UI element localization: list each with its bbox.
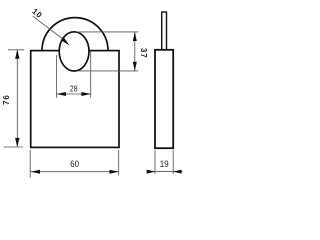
svg-text:60: 60: [70, 159, 79, 170]
svg-text:37: 37: [139, 48, 148, 59]
svg-text:19: 19: [160, 159, 169, 170]
svg-text:28: 28: [70, 84, 78, 94]
svg-text:76: 76: [2, 94, 11, 105]
